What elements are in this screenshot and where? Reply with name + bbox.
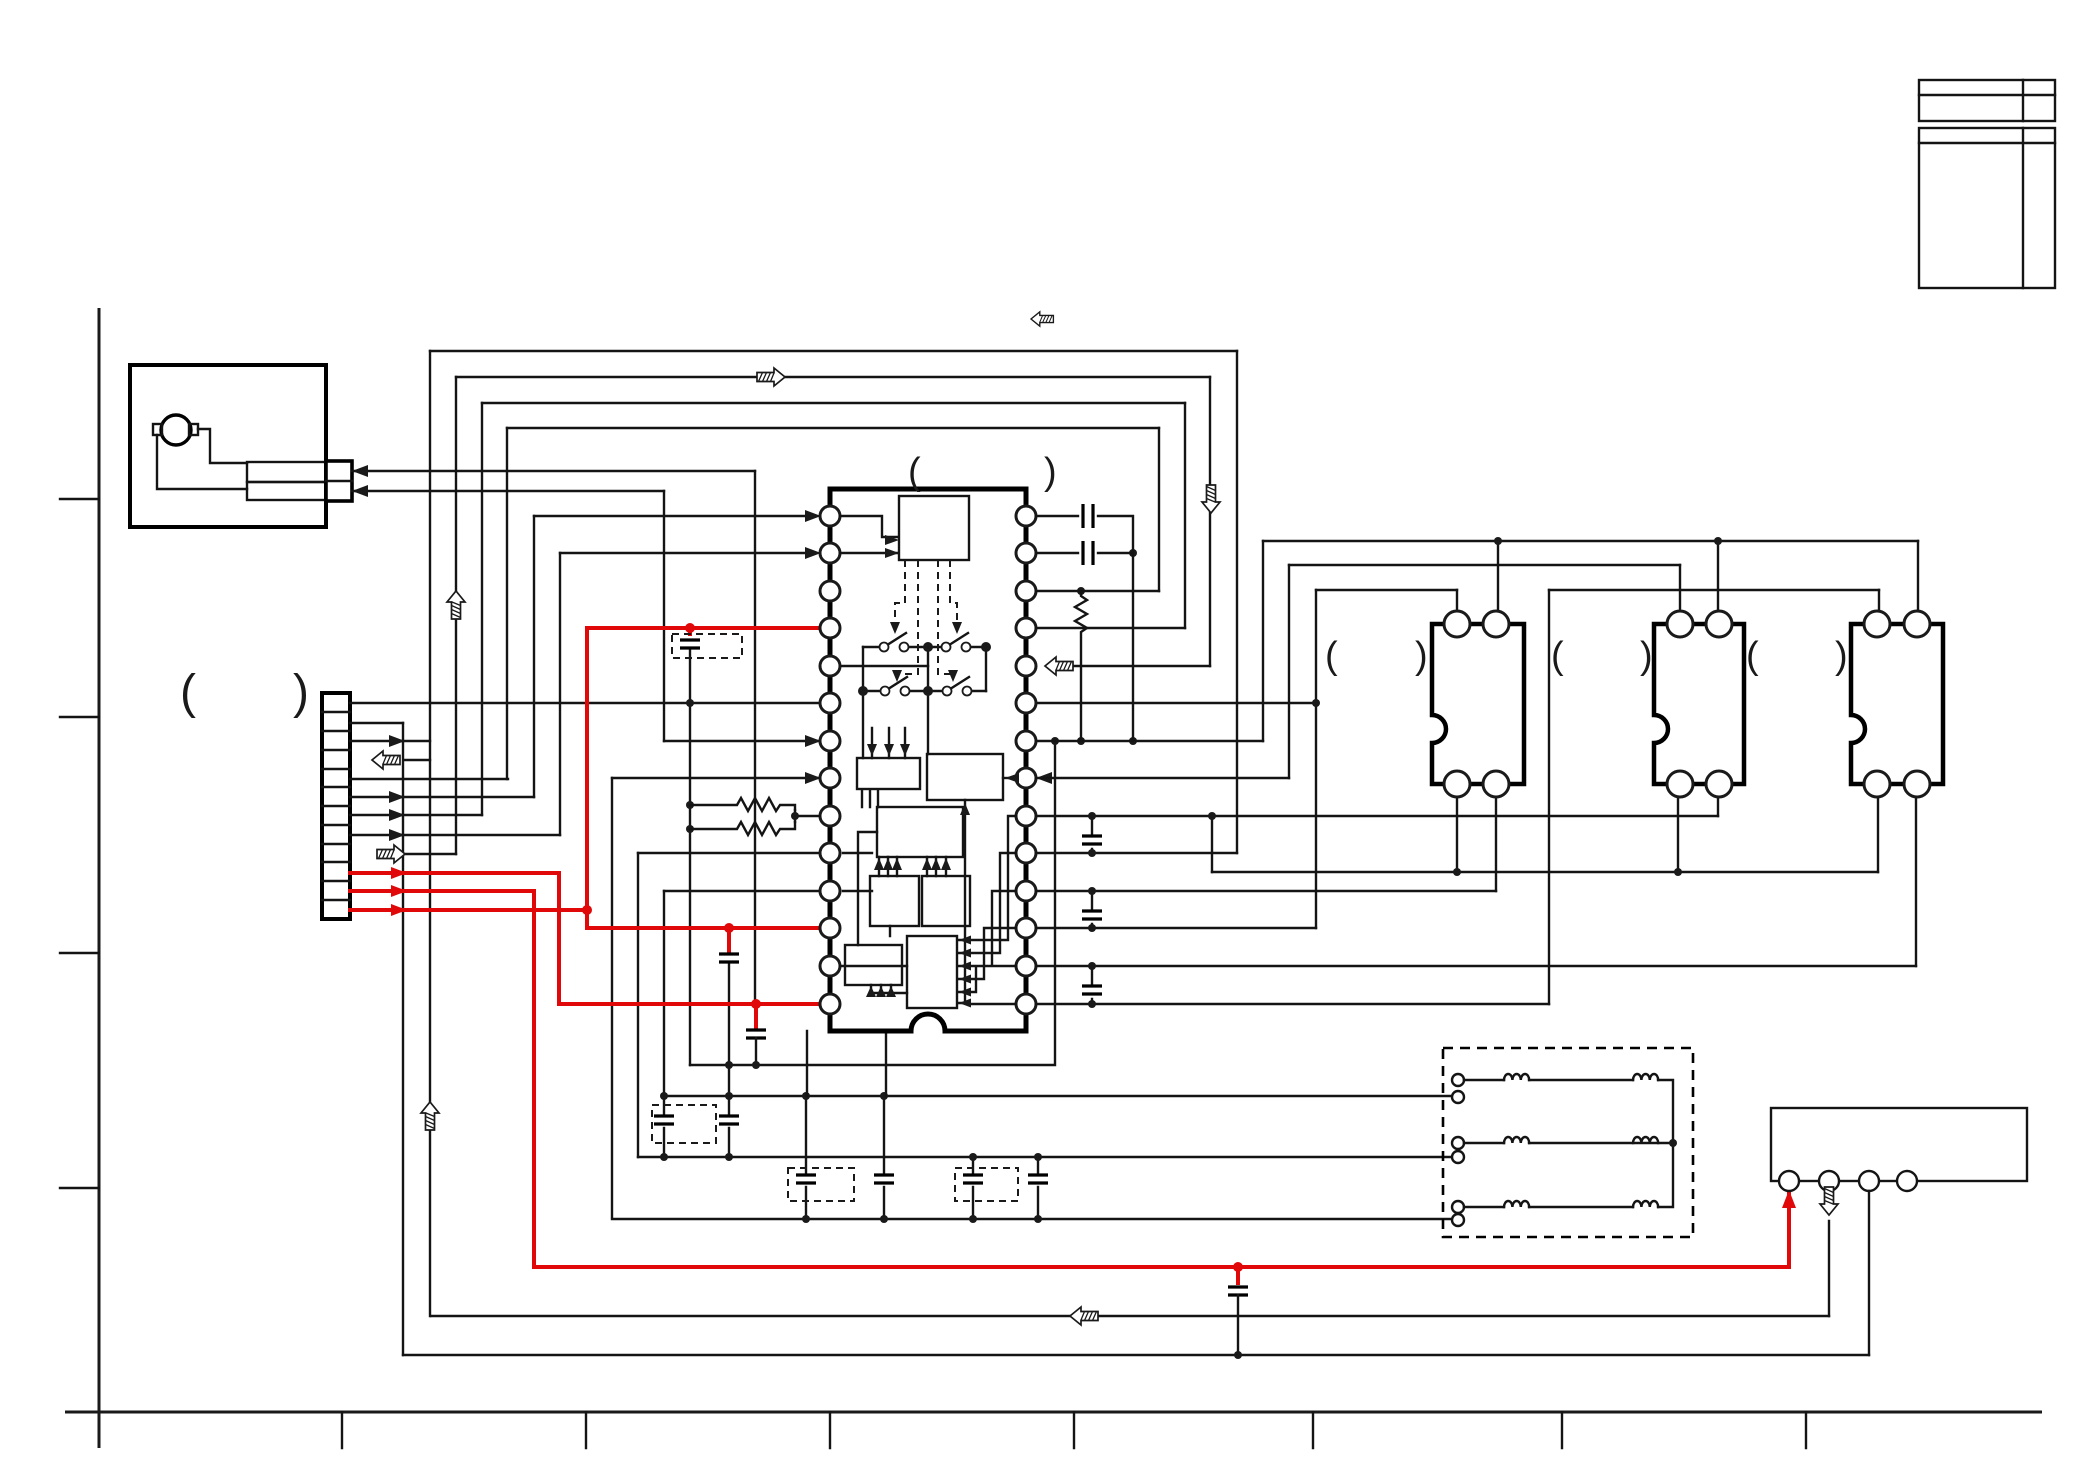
- svg-text:(: (: [1746, 635, 1759, 677]
- svg-text:): ): [1835, 635, 1848, 677]
- svg-text:(: (: [180, 666, 196, 719]
- svg-text:): ): [1044, 451, 1057, 493]
- svg-text:): ): [1640, 635, 1653, 677]
- svg-text:(: (: [1551, 635, 1564, 677]
- svg-text:(: (: [908, 451, 921, 493]
- svg-text:(: (: [1325, 635, 1338, 677]
- svg-text:): ): [1415, 635, 1428, 677]
- svg-text:): ): [293, 666, 309, 719]
